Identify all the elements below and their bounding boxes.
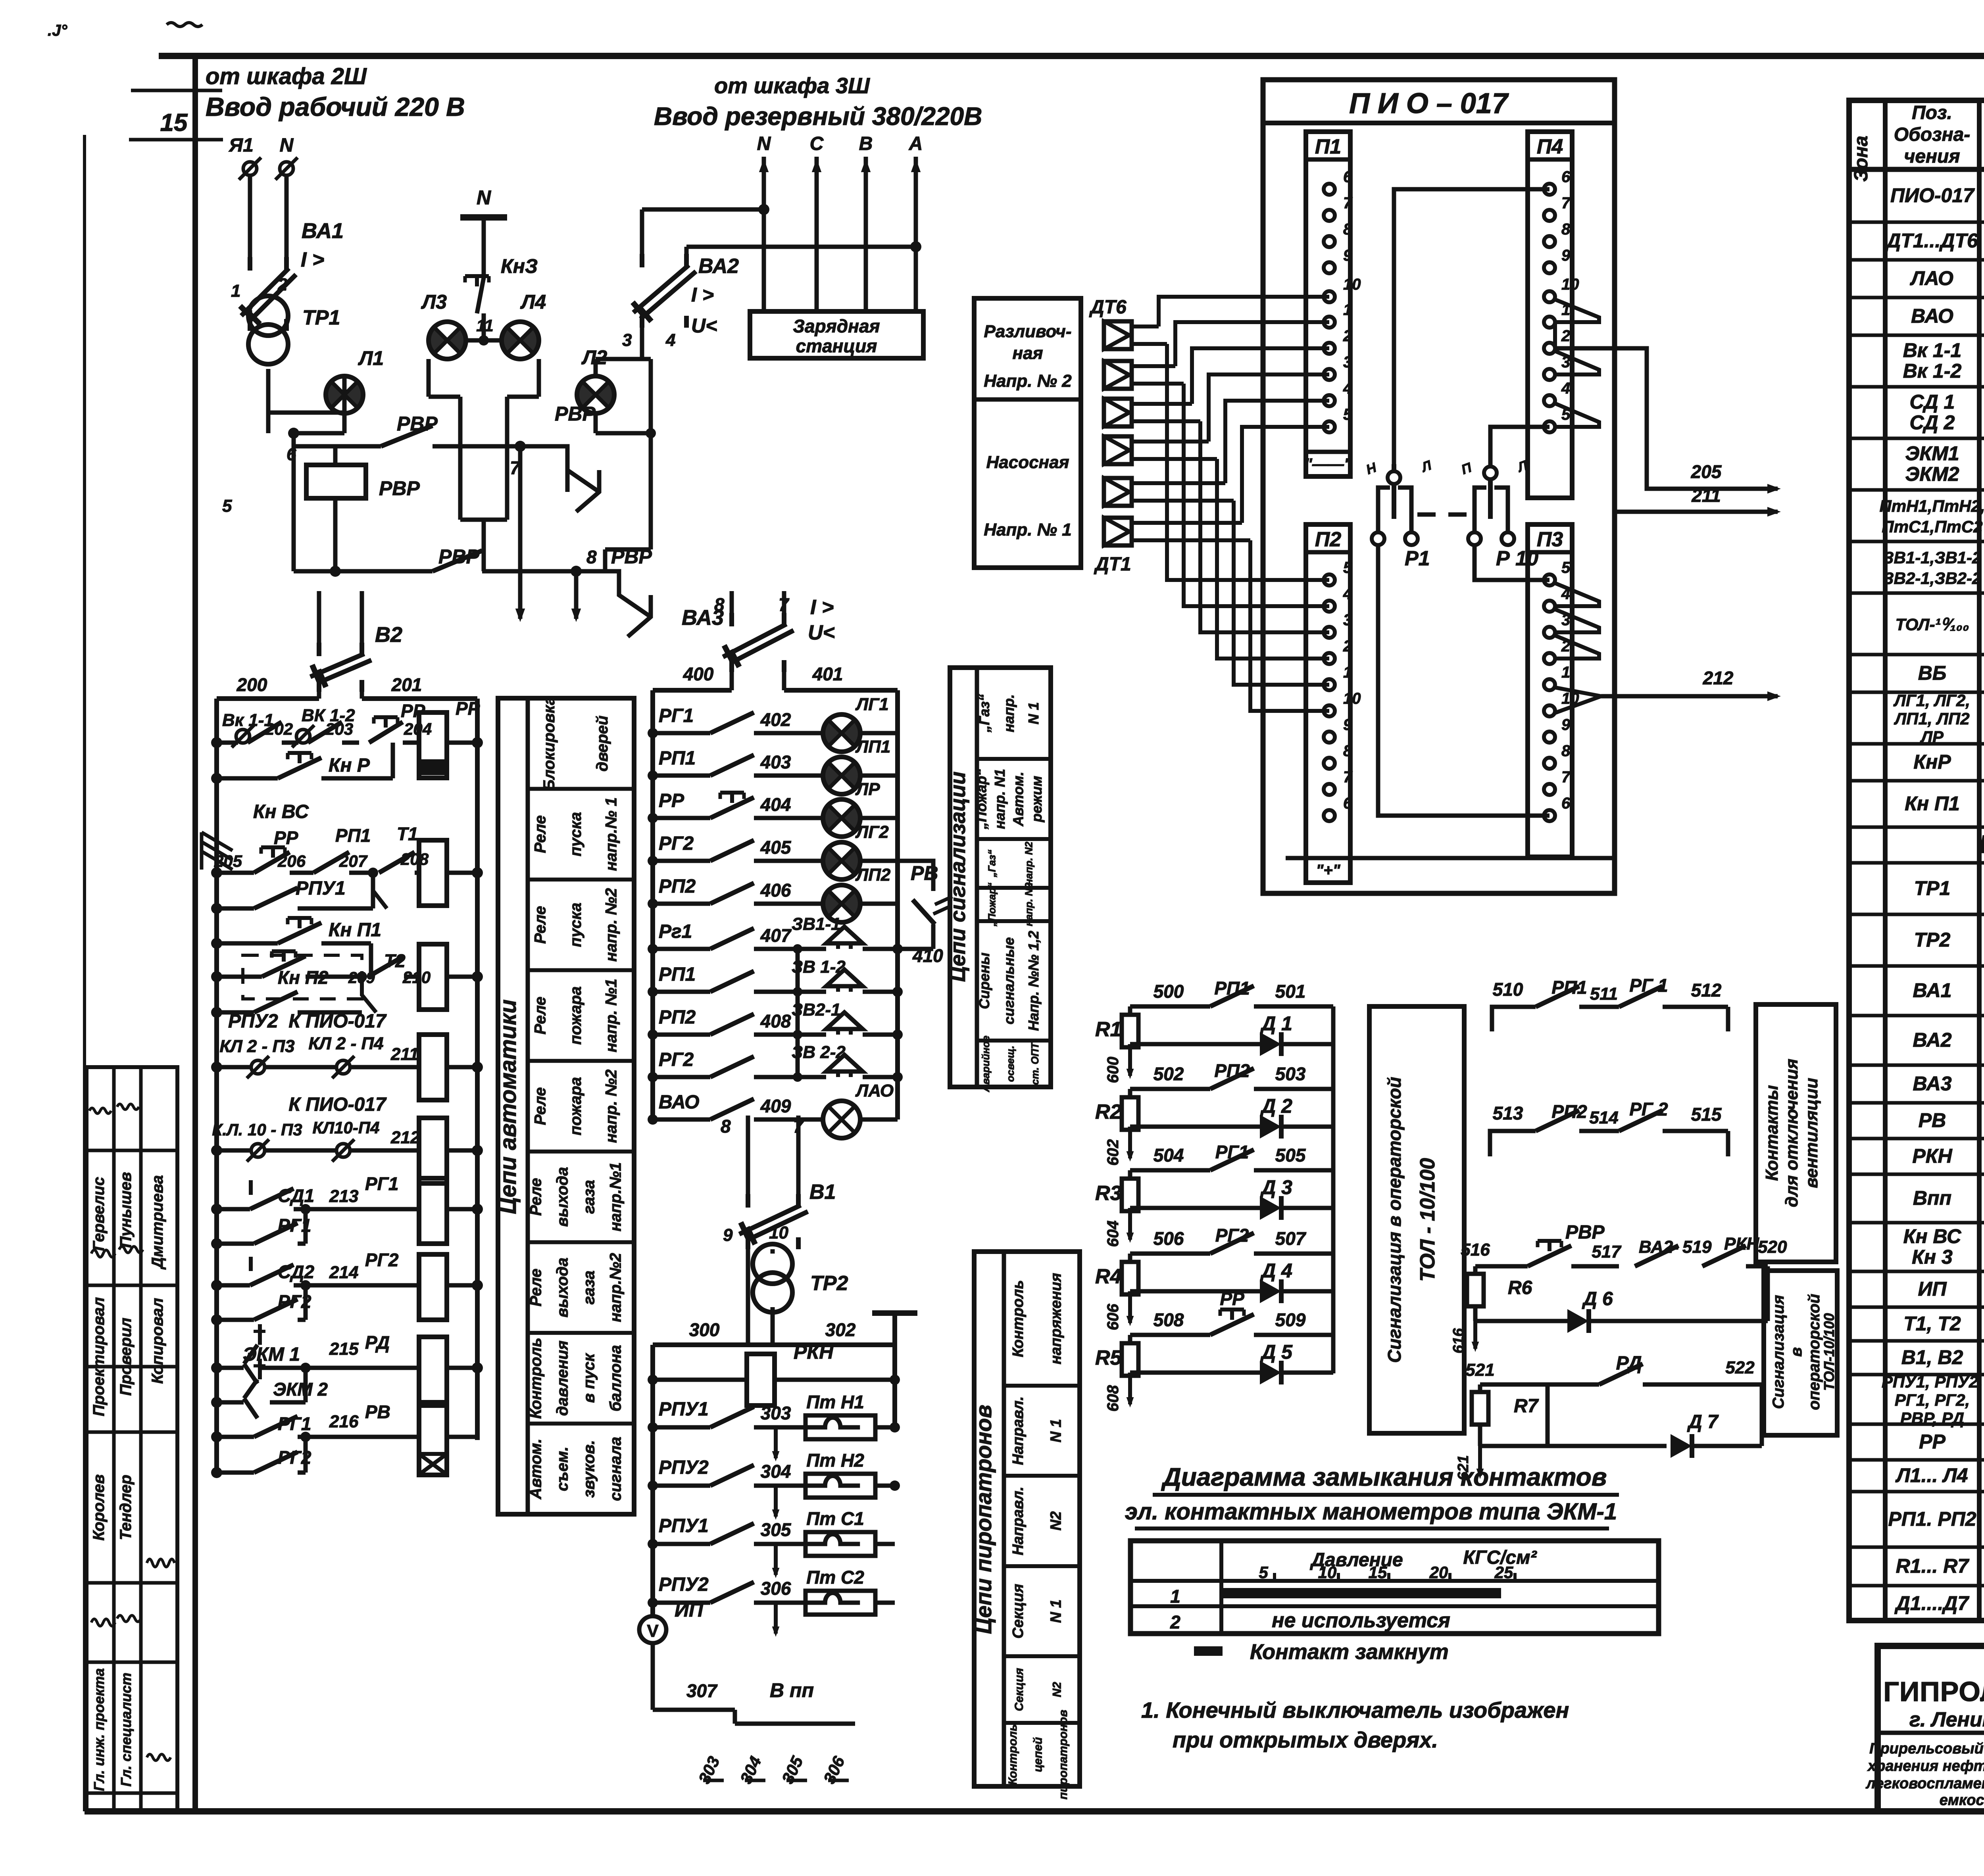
fire sensor DT5 xyxy=(1104,361,1184,389)
svg-text:газа: газа xyxy=(581,1180,598,1214)
svg-text:501: 501 xyxy=(1275,981,1306,1002)
svg-text:515: 515 xyxy=(1691,1104,1722,1125)
svg-text:9: 9 xyxy=(1343,716,1352,734)
table row 10: Станция пожарной сигнализаци xyxy=(1896,603,1984,648)
svg-text:Д 5: Д 5 xyxy=(1260,1341,1293,1363)
table row 1: Промежуточное исполнительно xyxy=(1890,174,1984,220)
svg-text:304: 304 xyxy=(761,1461,791,1482)
wire 205 arrow xyxy=(1555,348,1781,493)
svg-text:освещ.: освещ. xyxy=(1004,1046,1016,1082)
svg-text:1: 1 xyxy=(1343,664,1352,681)
svg-text:6: 6 xyxy=(1561,795,1571,812)
switch V2 xyxy=(310,591,402,699)
svg-text:I >: I > xyxy=(691,284,714,306)
label box Tsepi piropatronov xyxy=(971,1252,1080,1799)
svg-text:К ПИО-017: К ПИО-017 xyxy=(288,1011,387,1032)
rung KnR xyxy=(211,743,393,784)
svg-text:РГ2: РГ2 xyxy=(1215,1225,1249,1246)
svg-text:Контроль: Контроль xyxy=(527,1338,545,1419)
note 1 konechny vyklyuchatel xyxy=(1141,1697,1569,1752)
svg-text:К ПИО-017: К ПИО-017 xyxy=(288,1094,387,1115)
wires lamp group L3 L4 xyxy=(429,335,539,571)
table row 20: АП50-2 М 3ТН Iр = 2,5 А xyxy=(1913,1073,1984,1096)
svg-text:операторской: операторской xyxy=(1805,1294,1823,1410)
table row 13: Пост кнопочный ПКЕ-012-45 xyxy=(1913,751,1984,775)
svg-text:Цепи сигнализации: Цепи сигнализации xyxy=(946,772,970,982)
svg-text:Напр. №№ 1,2: Напр. №№ 1,2 xyxy=(1025,931,1042,1031)
svg-text:B: B xyxy=(859,133,873,154)
svg-text:Контроль: Контроль xyxy=(1006,1724,1019,1785)
lamp rung ЗВ 2-2: contact РГ2 -> ЗВ 2-2 xyxy=(648,1043,903,1082)
P3 zigzag links xyxy=(1555,583,1601,713)
svg-text:Реле: Реле xyxy=(532,815,549,853)
svg-text:R2: R2 xyxy=(1095,1100,1122,1123)
svg-text:ная: ная xyxy=(1013,344,1043,363)
svg-text:К.Л. 10 - П3: К.Л. 10 - П3 xyxy=(212,1120,302,1139)
svg-text:509: 509 xyxy=(1275,1310,1306,1330)
svg-text:ПИО-017: ПИО-017 xyxy=(1890,184,1975,207)
svg-text:ЭКМ2: ЭКМ2 xyxy=(1905,463,1959,485)
sensor bus to P2 pins xyxy=(1167,344,1329,711)
svg-text:505: 505 xyxy=(1275,1145,1306,1166)
rung 510-512: RP1 RG1 vent contacts xyxy=(1492,975,1728,1031)
contact RVR (rung 6) xyxy=(294,413,520,446)
svg-text:Л4: Л4 xyxy=(520,291,546,313)
svg-text:N2: N2 xyxy=(1050,1682,1063,1697)
connector strip P3 xyxy=(1528,524,1579,857)
svg-text:Л1... Л4: Л1... Л4 xyxy=(1896,1464,1968,1486)
svg-text:РП2: РП2 xyxy=(659,876,696,897)
pyro rung 303: contact РПУ1 fuse Пт Н1 xyxy=(648,1392,900,1461)
svg-text:1: 1 xyxy=(1561,664,1570,681)
lamp rung 408: contact РП2 -> ЗВ2-1 xyxy=(648,1000,903,1040)
table row 14: Кнопка управления взрывобе xyxy=(1905,782,1984,828)
svg-text:ВА1: ВА1 xyxy=(302,219,344,243)
table row 22: Реле РПУ-1-362 ТУ16.52302 xyxy=(1912,1145,1984,1169)
svg-text:Р1: Р1 xyxy=(1405,547,1430,570)
svg-text:406: 406 xyxy=(760,880,791,901)
svg-text:Сигнализация в операторской: Сигнализация в операторской xyxy=(1384,1077,1405,1363)
svg-text:Насосная: Насосная xyxy=(986,453,1069,472)
svg-text:емкостью 2000 м³: емкостью 2000 м³ xyxy=(1940,1792,1984,1809)
svg-text:РР: РР xyxy=(1220,1288,1244,1309)
svg-text:РВР: РВР xyxy=(555,403,596,425)
svg-text:ЭКМ1: ЭКМ1 xyxy=(1905,442,1959,465)
rung 213: SD1 / coil RG1 xyxy=(211,1173,483,1244)
node 8 wire down xyxy=(571,547,597,622)
svg-text:РВР: РВР xyxy=(379,477,420,499)
rung 205-208: KnVS RR RP1 T1 / coil RPU1 xyxy=(202,801,483,908)
fire sensor DT1 xyxy=(1104,518,1250,545)
relay contact P1 (inside PIO) xyxy=(1364,458,1434,570)
svg-text:СД 1: СД 1 xyxy=(1910,391,1955,413)
svg-text:эл. контактных манометров ти: эл. контактных манометров типа ЭКМ-1 xyxy=(1125,1499,1617,1525)
svg-text:R6: R6 xyxy=(1508,1277,1532,1298)
svg-text:режим: режим xyxy=(1029,776,1045,823)
svg-text:РГ1: РГ1 xyxy=(1215,1142,1249,1162)
svg-text:R5: R5 xyxy=(1095,1346,1122,1369)
svg-text:403: 403 xyxy=(760,752,791,772)
rung 211: K PIO-017 terminals KL2-P3 KL2-P4 / coil RP1 xyxy=(211,1011,483,1100)
sensor bus to P1 pins xyxy=(1159,297,1329,523)
svg-text:сигнальные: сигнальные xyxy=(1001,937,1017,1025)
svg-text:Аварийное: Аварийное xyxy=(980,1035,992,1092)
svg-text:"+": "+" xyxy=(1316,862,1340,879)
lamp rung 406: contact РП2 -> ЛП2 xyxy=(648,865,898,922)
svg-text:газа: газа xyxy=(581,1271,598,1305)
svg-text:5: 5 xyxy=(1259,1563,1268,1582)
wire to VA2 from N xyxy=(642,204,769,254)
svg-text:4: 4 xyxy=(1343,380,1352,397)
svg-text:205: 205 xyxy=(1691,461,1722,482)
svg-text:R3: R3 xyxy=(1095,1182,1122,1205)
svg-text:4: 4 xyxy=(665,330,675,350)
svg-text:хранения нефтепродуктов и друг: хранения нефтепродуктов и других xyxy=(1867,1758,1984,1774)
label box Tsepi signalizatsii xyxy=(946,668,1051,1093)
svg-text:звуков.: звуков. xyxy=(581,1440,598,1498)
svg-text:Реле: Реле xyxy=(532,906,549,944)
svg-text:2: 2 xyxy=(1343,327,1352,345)
svg-text:Направл.: Направл. xyxy=(1010,1396,1027,1465)
svg-text:510: 510 xyxy=(1493,979,1523,1000)
svg-text:РГ1: РГ1 xyxy=(659,705,694,726)
svg-text:РГ1: РГ1 xyxy=(365,1173,399,1194)
P4 zigzag links xyxy=(1555,300,1599,427)
svg-text:ГИПРОЛЕСТРАНС: ГИПРОЛЕСТРАНС xyxy=(1883,1676,1984,1707)
svg-text:Поз.: Поз. xyxy=(1912,102,1952,123)
svg-text:Вк 1-1: Вк 1-1 xyxy=(1903,339,1962,361)
rung 513-515: RP2 RG2 vent contacts xyxy=(1490,1099,1728,1156)
svg-text:8: 8 xyxy=(1561,221,1571,238)
svg-text:РП1: РП1 xyxy=(1551,977,1587,998)
svg-text:5: 5 xyxy=(1561,559,1571,576)
svg-text:25: 25 xyxy=(1494,1563,1513,1582)
svg-text:616: 616 xyxy=(1450,1328,1467,1353)
table row 24: Кнопка ПЕ-011-У3 ГОСТ xyxy=(1903,1225,1984,1269)
svg-text:Реле: Реле xyxy=(527,1178,545,1216)
table row 17: Тоже ТБСЗ-0,25 220/24 xyxy=(1914,918,1984,964)
svg-text:Проверил: Проверил xyxy=(117,1317,135,1396)
pyro rung 306: contact РПУ2 fuse Пт С2 xyxy=(648,1567,895,1637)
svg-text:6: 6 xyxy=(1343,795,1352,812)
svg-text:РР: РР xyxy=(274,828,298,848)
svg-text:1: 1 xyxy=(1170,1586,1180,1607)
table row 32: Резистор МЛТ-0,5 - 1к xyxy=(1896,1555,1984,1579)
svg-text:214: 214 xyxy=(329,1263,358,1282)
rung RPU2 holding contact xyxy=(211,992,362,1032)
svg-text:Автом.: Автом. xyxy=(1010,772,1026,826)
svg-text:РР: РР xyxy=(456,698,480,719)
svg-text:ПтС1,ПтС2: ПтС1,ПтС2 xyxy=(1882,517,1982,536)
label box Signalizatsiya v operatorskoy TOL-10/100 (right) xyxy=(1764,1271,1837,1435)
svg-text:2: 2 xyxy=(1561,327,1570,345)
svg-text:Автом.: Автом. xyxy=(527,1438,545,1500)
bottom rung with RVR contact xyxy=(294,433,576,577)
svg-text:РП2: РП2 xyxy=(1551,1101,1587,1122)
svg-text:РП1: РП1 xyxy=(1214,978,1250,998)
svg-text:400: 400 xyxy=(683,664,714,684)
svg-text:522: 522 xyxy=(1725,1358,1755,1377)
svg-text:404: 404 xyxy=(760,794,791,815)
svg-text:Ввод резервный 380/220В: Ввод резервный 380/220В xyxy=(654,102,982,131)
svg-text:РП1: РП1 xyxy=(335,825,371,846)
table row 26: Тумблер ТВ 1-1 НИ0.360.606 xyxy=(1903,1313,1984,1337)
rung RG1 holding xyxy=(211,1209,311,1249)
svg-text:N: N xyxy=(280,135,294,156)
rung 214: SD2 / coil RG2 xyxy=(211,1250,483,1320)
rung 215: EKM1 EKM2 / coil RD xyxy=(211,1324,483,1402)
svg-text:7: 7 xyxy=(1561,768,1571,786)
fire sensor DT3 xyxy=(1104,436,1217,464)
svg-text:3: 3 xyxy=(622,330,632,350)
connector strip P2 xyxy=(1306,524,1361,883)
svg-text:U<: U< xyxy=(808,621,835,644)
svg-text:Пт С1: Пт С1 xyxy=(806,1508,864,1529)
pyro rung 305: contact РПУ1 fuse Пт С1 xyxy=(648,1508,895,1578)
svg-text:Кн ВС: Кн ВС xyxy=(253,801,309,822)
svg-text:2: 2 xyxy=(1170,1612,1180,1632)
wire 211 arrow xyxy=(1615,485,1781,517)
svg-text:РП2: РП2 xyxy=(659,1007,696,1028)
svg-text:401: 401 xyxy=(812,664,843,684)
table row 12: Светильник ВЗГ-100 xyxy=(1893,691,1984,746)
title block xyxy=(1878,1646,1984,1811)
svg-text:R7: R7 xyxy=(1514,1396,1539,1417)
svg-text:ЗВ1-1,ЗВ1-2: ЗВ1-1,ЗВ1-2 xyxy=(1883,548,1982,567)
svg-text:ЛГ2: ЛГ2 xyxy=(855,822,889,842)
svg-text:ЛР: ЛР xyxy=(1920,728,1944,746)
svg-text:вентиляции: вентиляции xyxy=(1802,1078,1821,1188)
svg-text:Обозна-: Обозна- xyxy=(1894,124,1971,145)
svg-text:Д 4: Д 4 xyxy=(1260,1260,1292,1282)
svg-text:„Пожар“: „Пожар“ xyxy=(973,769,989,830)
rung RPU1 holding contact xyxy=(211,873,373,914)
svg-text:517: 517 xyxy=(1592,1242,1622,1262)
svg-text:в пуск: в пуск xyxy=(581,1353,598,1403)
svg-text:Гл. специалист: Гл. специалист xyxy=(118,1672,134,1786)
table row 29: Реле переменного тока ~ xyxy=(1919,1420,1984,1466)
voltmeter IP xyxy=(639,1599,704,1710)
svg-text:дверей: дверей xyxy=(594,716,611,772)
wire P10 left pin to P3 pin5 xyxy=(1475,545,1550,580)
lamp rung 407: contact Рг1 -> ЗВ1-1 xyxy=(648,914,903,954)
svg-text:КнР: КнР xyxy=(1913,751,1951,773)
rung EKM2 xyxy=(211,1359,328,1418)
svg-text:V: V xyxy=(647,1621,659,1641)
svg-text:съем.: съем. xyxy=(554,1446,571,1491)
svg-text:КЛ10-П4: КЛ10-П4 xyxy=(313,1118,380,1137)
svg-text:ЛП1, ЛП2: ЛП1, ЛП2 xyxy=(1894,709,1969,728)
svg-text:ЛП1: ЛП1 xyxy=(855,737,890,757)
rung 216: RG1 / coil RV xyxy=(211,1402,477,1475)
svg-text:В1, В2: В1, В2 xyxy=(1901,1346,1963,1369)
title block project description xyxy=(1865,1740,1984,1809)
svg-text:П4: П4 xyxy=(1537,135,1563,158)
lamp ladder rails xyxy=(653,690,898,1119)
svg-text:307: 307 xyxy=(686,1680,718,1701)
svg-text:Д 2: Д 2 xyxy=(1260,1095,1292,1117)
table row 23: Переключатель щеточный xyxy=(1913,1177,1984,1223)
svg-text:211: 211 xyxy=(390,1045,419,1064)
svg-text:ПтН1,ПтН2,: ПтН1,ПтН2, xyxy=(1880,497,1984,515)
relay contact P10 (inside PIO) xyxy=(1459,427,1550,570)
svg-text:РД: РД xyxy=(365,1332,390,1353)
table header xyxy=(1851,102,1984,182)
svg-text:напр.№2: напр.№2 xyxy=(607,1253,625,1322)
svg-text:РП1. РП2: РП1. РП2 xyxy=(1888,1508,1976,1530)
svg-text:РП2: РП2 xyxy=(1214,1060,1250,1081)
label: ot shkafa 3Sh / Vvod rezervny 380/220V xyxy=(654,73,982,131)
svg-text:10: 10 xyxy=(1343,690,1361,707)
svg-text:баллона: баллона xyxy=(607,1345,625,1411)
signature stamp strip xyxy=(87,1067,177,1811)
svg-text:504: 504 xyxy=(1153,1145,1184,1166)
svg-text:6: 6 xyxy=(1561,168,1571,186)
svg-text:напр.№ 1: напр.№ 1 xyxy=(602,797,620,871)
label box Tsepi avtomatiki xyxy=(495,696,634,1514)
svg-text:напр. №2: напр. №2 xyxy=(602,888,620,962)
lamp rung 403: contact РП1 -> ЛП1 xyxy=(648,737,898,794)
svg-text:СД 2: СД 2 xyxy=(1910,411,1955,434)
svg-text:ДТ1...ДТ6: ДТ1...ДТ6 xyxy=(1885,230,1978,252)
svg-text:напр. №1: напр. №1 xyxy=(602,979,620,1052)
svg-text:РР: РР xyxy=(659,790,684,811)
svg-text:507: 507 xyxy=(1275,1228,1307,1249)
svg-text:пуска: пуска xyxy=(567,812,584,856)
svg-text:Направл.: Направл. xyxy=(1010,1486,1027,1555)
legend contact closed xyxy=(1194,1640,1449,1664)
svg-text:РД: РД xyxy=(1616,1353,1642,1374)
svg-text:ТОЛ - 10/100: ТОЛ - 10/100 xyxy=(1416,1158,1439,1282)
table row 30: Табло световое ТСМ xyxy=(1896,1464,1984,1488)
svg-text:212: 212 xyxy=(1703,668,1734,688)
svg-text:514: 514 xyxy=(1589,1108,1618,1127)
svg-text:10: 10 xyxy=(1343,276,1361,293)
svg-text:ИП: ИП xyxy=(675,1599,704,1621)
svg-text:Т1: Т1 xyxy=(397,824,418,844)
table row 3: Светильник БУН-60м xyxy=(1910,267,1984,292)
svg-text:пиропатронов: пиропатронов xyxy=(1057,1710,1070,1799)
label box Kontakty dlya otklyucheniya ventilyatsii xyxy=(1756,1004,1836,1262)
table row 11: Выпрямитель стабилизированн xyxy=(1918,662,1984,686)
node labels 300 302 xyxy=(689,1319,856,1340)
svg-text:10: 10 xyxy=(1318,1563,1337,1582)
svg-text:ЛАО: ЛАО xyxy=(855,1081,894,1100)
charging station box xyxy=(750,311,923,358)
svg-text:Д 6: Д 6 xyxy=(1582,1288,1613,1310)
svg-text:8: 8 xyxy=(1343,742,1352,760)
charging feeder wires xyxy=(759,157,921,311)
contact closing diagram table xyxy=(1130,1541,1659,1634)
rung 209-210: KnP2 T2 / coil RPU2 with dashed box xyxy=(211,944,483,1012)
lamp L1 xyxy=(268,347,384,433)
svg-text:Напр. № 1: Напр. № 1 xyxy=(984,520,1072,540)
svg-text:ТР2: ТР2 xyxy=(1914,929,1951,951)
svg-text:Пт Н1: Пт Н1 xyxy=(806,1392,864,1412)
svg-text:200: 200 xyxy=(236,674,267,695)
svg-text:РГ2: РГ2 xyxy=(659,1049,694,1070)
svg-text:600: 600 xyxy=(1104,1057,1122,1083)
wire 212 arrow xyxy=(1601,668,1781,701)
svg-text:от шкафа 2Ш: от шкафа 2Ш xyxy=(206,63,367,89)
svg-text:"——": "——" xyxy=(1305,455,1352,473)
svg-text:РВР, РД: РВР, РД xyxy=(1900,1409,1964,1428)
svg-text:ЛП2: ЛП2 xyxy=(855,865,891,885)
svg-text:напр.: напр. xyxy=(1001,694,1017,732)
svg-text:606: 606 xyxy=(1104,1304,1122,1330)
table row 7: Электроконтактный манометр xyxy=(1905,442,1984,488)
svg-text:1: 1 xyxy=(1343,301,1352,319)
lamp L4 xyxy=(476,291,546,359)
svg-text:Разливоч-: Разливоч- xyxy=(984,322,1072,341)
svg-text:211: 211 xyxy=(1691,485,1721,506)
svg-text:Д 3: Д 3 xyxy=(1260,1176,1292,1198)
svg-text:КЛ 2 - П3: КЛ 2 - П3 xyxy=(219,1037,294,1056)
resistor R4 rung 506: contact РГ2 diode Д 4 xyxy=(1095,1225,1333,1330)
svg-text:R1: R1 xyxy=(1095,1018,1121,1041)
svg-text:10: 10 xyxy=(1561,276,1579,293)
svg-text:ЛР: ЛР xyxy=(855,780,880,799)
svg-text:Кн П1: Кн П1 xyxy=(329,920,381,941)
svg-text:РКН: РКН xyxy=(1724,1234,1759,1254)
svg-text:РГ1, РГ2,: РГ1, РГ2, xyxy=(1895,1391,1970,1409)
svg-text:Сигнализация: Сигнализация xyxy=(1770,1295,1787,1409)
svg-text:402: 402 xyxy=(760,709,791,730)
lamp rung ЗВ 1-2: contact РП1 -> ЗВ 1-2 xyxy=(648,957,903,997)
svg-text:10: 10 xyxy=(769,1223,788,1242)
svg-text:Гл. инж. проекта: Гл. инж. проекта xyxy=(91,1668,107,1791)
relay coil RKN xyxy=(648,1341,900,1406)
svg-text:3: 3 xyxy=(1343,353,1352,371)
svg-text:П И О – 017: П И О – 017 xyxy=(1349,88,1509,119)
heading Diagramma zamykaniya kontaktov xyxy=(1125,1463,1619,1528)
svg-text:Диаграмма замыкания контакто: Диаграмма замыкания контактов xyxy=(1161,1463,1607,1491)
transformer TR1 xyxy=(248,296,340,428)
svg-text:519: 519 xyxy=(1682,1237,1712,1257)
lamp L2 xyxy=(577,346,651,433)
svg-text:N 1: N 1 xyxy=(1048,1599,1064,1623)
connector strip P4 xyxy=(1528,132,1579,498)
svg-text:ТР1: ТР1 xyxy=(302,306,340,329)
svg-text:408: 408 xyxy=(760,1011,791,1031)
svg-text:КЛ 2 - П4: КЛ 2 - П4 xyxy=(308,1034,383,1053)
svg-text:4: 4 xyxy=(1343,585,1352,603)
node labels 400 401 xyxy=(683,664,843,684)
svg-text:5: 5 xyxy=(1343,406,1352,423)
svg-text:Блокировка: Блокировка xyxy=(540,696,558,791)
neutral bar N and button Kn3 xyxy=(460,186,538,340)
svg-text:ВА2: ВА2 xyxy=(698,255,739,278)
rung 202-204: Vk1-1 Vk1-2 RR / coil RR xyxy=(211,698,483,778)
svg-text:выхода: выхода xyxy=(554,1167,571,1227)
node 7 wire down xyxy=(510,441,526,622)
svg-text:Дмитриева: Дмитриева xyxy=(149,1175,166,1269)
table row 31: Реле переменного тока xyxy=(1888,1498,1984,1544)
svg-text:сигнала: сигнала xyxy=(607,1437,625,1501)
svg-text:КнЗ: КнЗ xyxy=(501,255,538,277)
svg-text:давления: давления xyxy=(554,1340,571,1416)
svg-text:2: 2 xyxy=(277,275,288,294)
svg-text:6: 6 xyxy=(1343,168,1352,186)
svg-text:Вк 1-2: Вк 1-2 xyxy=(1903,360,1962,382)
svg-text:604: 604 xyxy=(1104,1221,1122,1247)
svg-text:212: 212 xyxy=(390,1128,420,1147)
room label box Razlivochnaya/Nasosnaya xyxy=(974,298,1081,568)
svg-text:чения: чения xyxy=(1904,146,1960,167)
svg-text:РПУ1: РПУ1 xyxy=(296,878,346,899)
svg-text:511: 511 xyxy=(1590,984,1618,1004)
lamp rung 404: contact РР -> ЛР xyxy=(648,780,898,837)
